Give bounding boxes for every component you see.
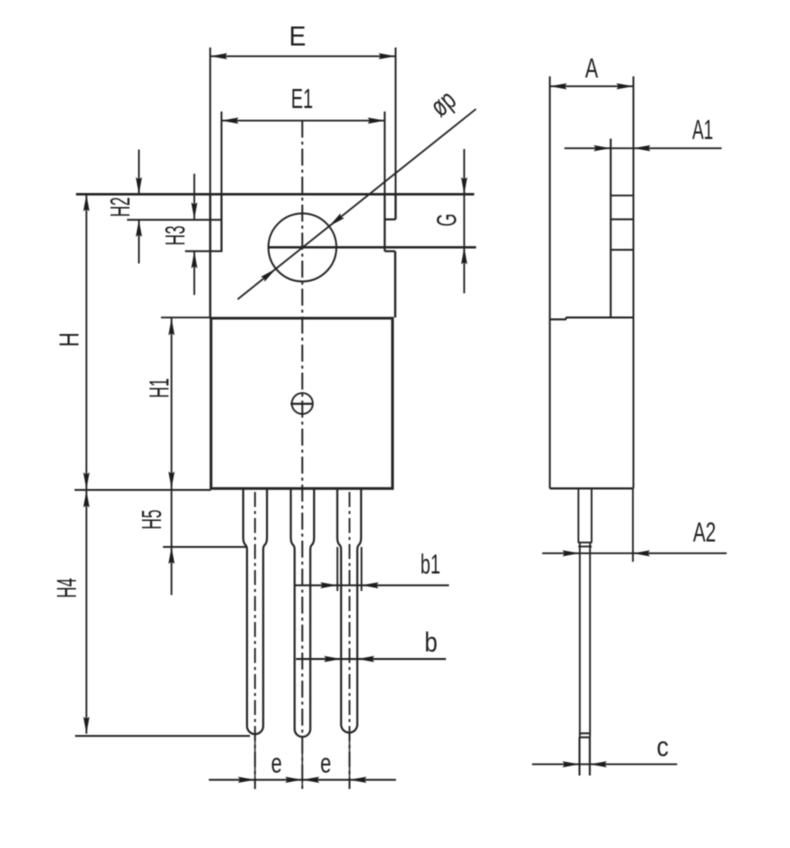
lead right — [337, 489, 361, 733]
notch inner left — [221, 112, 223, 195]
side body top step — [550, 318, 634, 320]
dim A1 line — [564, 147, 721, 149]
svg-text:A1: A1 — [692, 114, 713, 145]
arrows A2 — [563, 550, 580, 556]
center mark line — [291, 403, 314, 405]
dim H H4 line — [85, 194, 87, 734]
side lead tip cap — [579, 733, 590, 737]
side tick 1 — [611, 195, 634, 197]
arrows e — [238, 777, 255, 783]
arrows E1 — [222, 118, 239, 124]
svg-text:A2: A2 — [693, 517, 716, 548]
side tick 3 — [611, 249, 634, 251]
leader op diagonal — [238, 109, 476, 299]
arrow H5 — [168, 547, 174, 564]
svg-text:b1: b1 — [420, 549, 440, 580]
arrows G — [461, 177, 467, 194]
centerline front view — [301, 121, 303, 792]
body rectangle — [211, 318, 393, 488]
lead left — [243, 489, 267, 735]
notch tick right top — [385, 218, 396, 220]
side tick 2 — [611, 218, 634, 220]
lead tip centerline extensions — [255, 734, 350, 789]
arrows H2 — [136, 177, 142, 194]
lead middle — [291, 489, 314, 737]
centerline lead right — [349, 492, 351, 789]
svg-text:H1: H1 — [144, 378, 175, 398]
side right edge extension below — [632, 488, 634, 561]
dim b line — [296, 658, 446, 660]
body bottom extension left — [75, 489, 212, 491]
svg-text:e: e — [271, 748, 282, 779]
svg-text:H2: H2 — [105, 197, 136, 217]
tab right edge upper — [395, 48, 397, 195]
arrows op leader — [327, 213, 344, 228]
side left edge — [549, 76, 551, 488]
arrows A — [550, 83, 567, 89]
svg-text:e: e — [320, 748, 331, 779]
side lead shoulder ticks — [578, 543, 592, 547]
hole center line — [268, 246, 476, 248]
svg-text:G: G — [431, 214, 462, 227]
dim b1 line — [294, 584, 449, 586]
arrows b1 — [320, 582, 337, 588]
dim A2 line — [542, 552, 727, 554]
notch tick left top — [127, 219, 222, 221]
arrows E — [210, 53, 227, 59]
tab top edge — [76, 193, 474, 196]
arrows A1 — [594, 145, 611, 151]
svg-text:b: b — [425, 627, 438, 658]
side lead wide part — [578, 488, 591, 542]
svg-text:E: E — [289, 21, 306, 52]
H5 extension line — [163, 546, 247, 548]
notch tick right bottom — [385, 250, 396, 252]
mounting hole — [268, 213, 336, 281]
svg-text:H5: H5 — [136, 510, 167, 530]
svg-text:E1: E1 — [291, 83, 313, 114]
dim c line — [532, 763, 677, 765]
side body bottom — [550, 487, 633, 489]
dim b1 extension lines — [337, 547, 361, 591]
dim A line — [550, 85, 634, 87]
dim G line — [463, 149, 465, 293]
svg-text:H: H — [54, 332, 85, 347]
dim H2 arrow lines — [138, 150, 140, 264]
side right edge — [632, 76, 634, 488]
svg-text:A: A — [585, 53, 598, 84]
svg-text:H3: H3 — [160, 226, 191, 246]
svg-text:øp: øp — [424, 84, 462, 123]
arrows H — [83, 194, 89, 211]
svg-text:H4: H4 — [51, 578, 82, 598]
side lead narrow part — [580, 543, 590, 738]
dim e line — [209, 779, 396, 781]
notch tick left bottom — [185, 250, 222, 252]
arrows b — [324, 656, 341, 662]
notch inner right — [384, 112, 386, 195]
tab left edge — [209, 48, 211, 195]
side inner tab line — [610, 139, 612, 318]
arrows c — [563, 761, 580, 767]
dim E line — [210, 55, 395, 57]
svg-text:c: c — [657, 731, 669, 762]
dim H3 arrow lines — [193, 174, 195, 295]
centerline lead left — [254, 492, 256, 789]
arrows H3 — [191, 202, 197, 219]
side lead c extension — [580, 737, 590, 775]
dim E1 line — [222, 120, 385, 122]
arrowheads — [83, 53, 650, 783]
body top extension left — [161, 317, 211, 319]
tab right edge lower — [394, 251, 396, 317]
center mark circle — [292, 393, 313, 414]
dim H1 H5 line — [171, 318, 173, 596]
arrows H1 — [168, 318, 174, 335]
H4 bottom extension — [75, 735, 250, 737]
arrows H4 — [83, 490, 89, 507]
